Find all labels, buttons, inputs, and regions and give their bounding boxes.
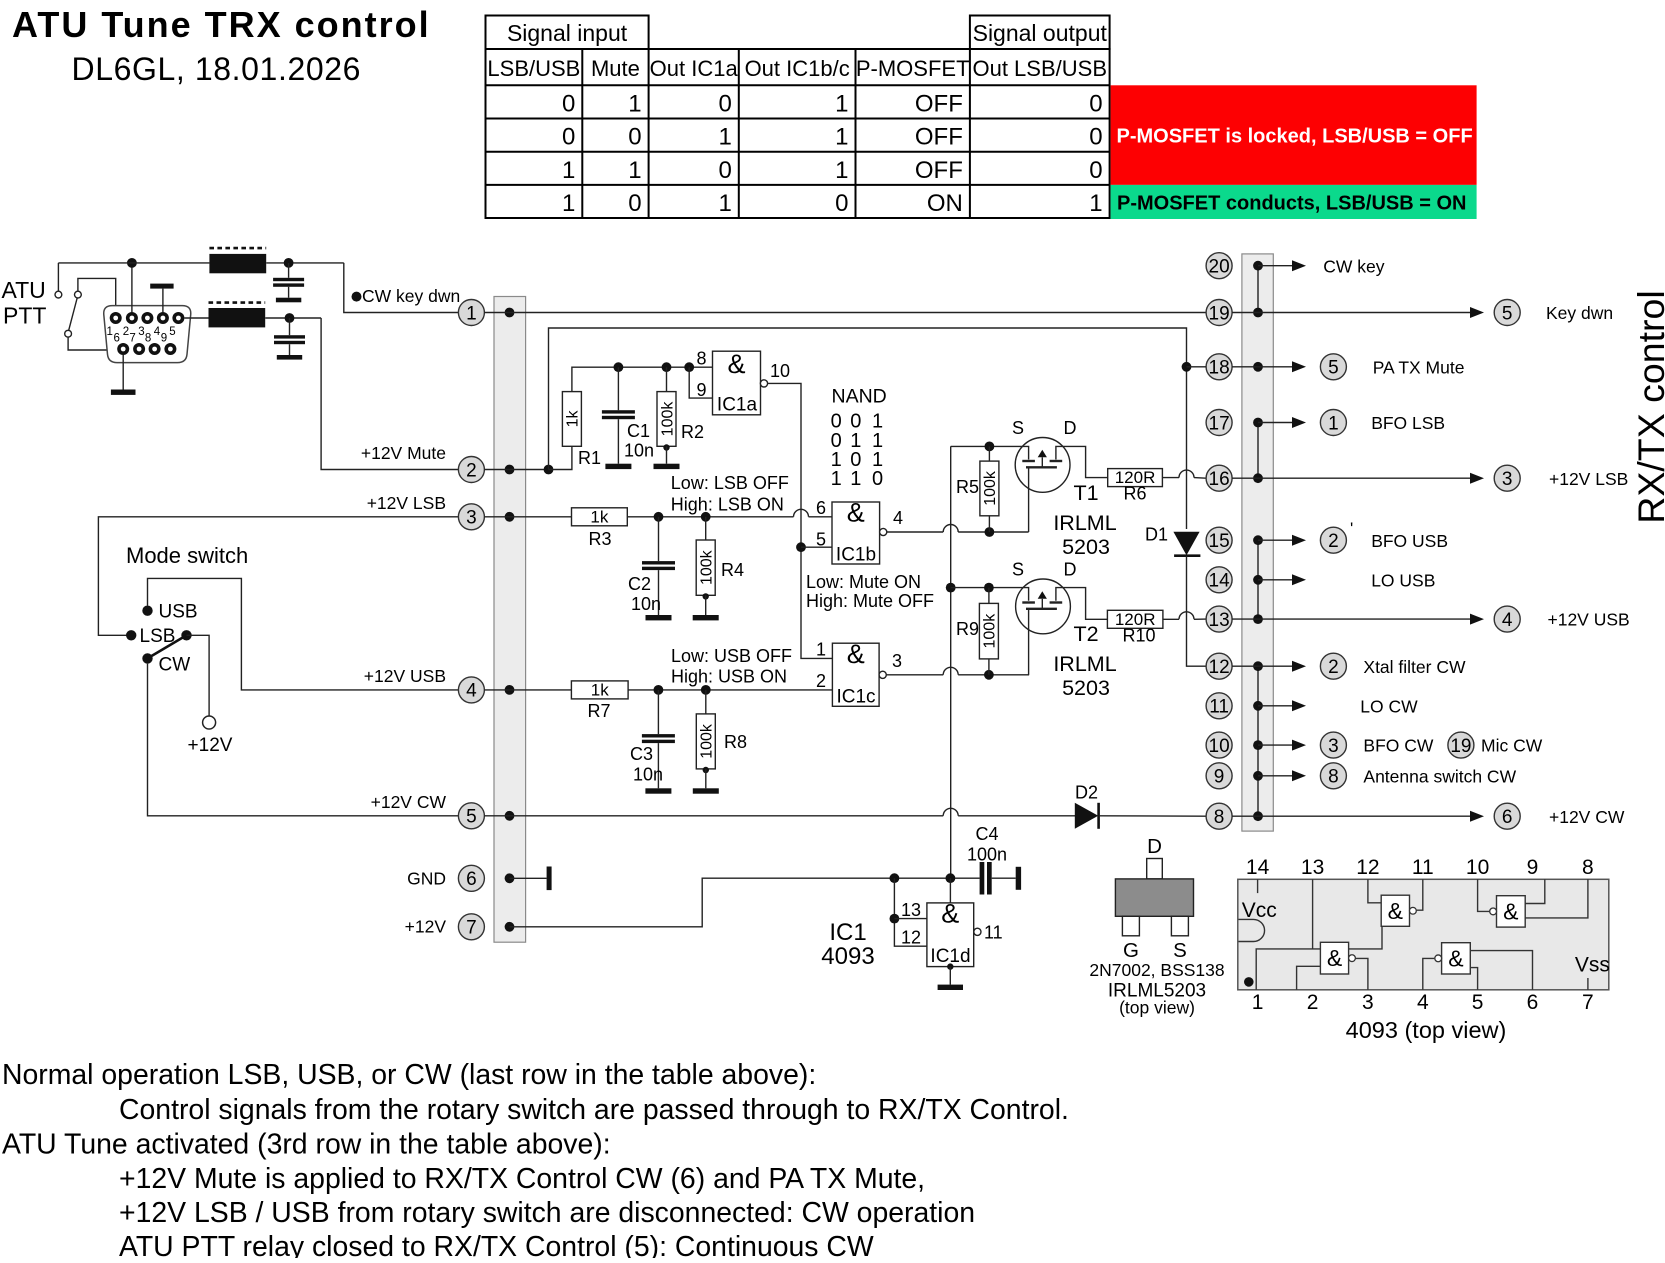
target circle 1 BFO LSB	[1320, 410, 1346, 436]
svg-text:10: 10	[770, 361, 790, 381]
capacitor C5 to ground	[288, 263, 290, 278]
transistor T1 IRLML5203 p-mosfet	[1015, 438, 1070, 493]
svg-text:Key dwn: Key dwn	[1546, 303, 1613, 323]
truth table	[486, 16, 1110, 219]
4093 wire gate4 output to pin11	[1417, 879, 1423, 910]
relay contact B	[75, 291, 82, 298]
junction T2 source / R9 top	[984, 583, 994, 593]
right bus pin 12 dot	[1253, 661, 1263, 671]
svg-text:OFF: OFF	[915, 91, 963, 118]
svg-text:5: 5	[1328, 358, 1339, 379]
svg-text:CW: CW	[159, 655, 191, 676]
wire relay contact A to top rail	[57, 263, 59, 291]
svg-text:17: 17	[1209, 413, 1230, 434]
svg-text:12: 12	[1356, 856, 1379, 879]
hop over IC1a-out vertical	[794, 509, 809, 516]
svg-text:&: &	[1448, 945, 1463, 971]
svg-text:6: 6	[816, 498, 826, 518]
nand gate IC1a	[713, 351, 761, 415]
long arrow out	[1258, 312, 1472, 314]
svg-text:R5: R5	[956, 477, 979, 497]
svg-text:7: 7	[129, 333, 135, 345]
target circle 5 PA TX Mute	[1320, 354, 1346, 380]
left bus pin 1 dot	[505, 308, 515, 318]
ferrite bead L2	[209, 308, 266, 327]
target circle 2 Xtal filter CW	[1320, 653, 1346, 679]
svg-text:S: S	[1012, 560, 1024, 580]
right bus pin 18 circle	[1206, 354, 1232, 380]
capacitor C6 to ground	[289, 318, 291, 335]
left terminal strip bar	[494, 297, 526, 943]
svg-text:100n: 100n	[967, 845, 1007, 865]
svg-text:1: 1	[718, 190, 731, 217]
svg-text:11: 11	[984, 923, 1003, 943]
svg-text:1: 1	[1089, 190, 1102, 217]
4093 gate3 (pins 8,9,10)	[1497, 896, 1526, 927]
svg-text:IC1a: IC1a	[717, 395, 758, 416]
right bus pin 12 circle	[1206, 653, 1232, 679]
svg-text:9: 9	[696, 380, 706, 400]
right terminal strip bar	[1242, 254, 1273, 831]
right bus pin 19 dot	[1253, 308, 1263, 318]
junction R2 top	[662, 362, 672, 372]
DB9 pin 1	[110, 312, 122, 324]
right bus pin 18 dot	[1253, 362, 1263, 372]
arrow out	[1258, 366, 1294, 368]
resistor R8 100k	[705, 690, 707, 714]
4093 pin7 stub	[1587, 978, 1589, 990]
DB9 pin 3	[141, 312, 153, 324]
red note: P-MOSFET is locked	[1111, 85, 1477, 185]
mode switch LSB contact	[126, 630, 136, 640]
R4 lead dot	[703, 593, 709, 599]
svg-text:100k: 100k	[982, 470, 999, 506]
wire IC1c out to T2 gate	[886, 674, 943, 676]
resistor R7 1k	[571, 681, 628, 699]
svg-text:G: G	[1123, 939, 1139, 962]
svg-text:+12V: +12V	[188, 735, 233, 756]
svg-text:5203: 5203	[1062, 676, 1110, 700]
svg-text:LSB/USB: LSB/USB	[487, 56, 580, 81]
resistor R5 100k	[988, 446, 990, 461]
svg-text:5203: 5203	[1062, 535, 1110, 559]
right bus pin 16 dot	[1253, 473, 1263, 483]
wire mute node up and right to pin18 column	[549, 328, 1187, 470]
svg-text:R2: R2	[681, 422, 704, 442]
svg-text:16: 16	[1209, 469, 1230, 490]
junction at C5 top	[284, 258, 294, 268]
wire DB9 pin 2 to top rail	[131, 263, 133, 312]
svg-text:&: &	[1388, 898, 1403, 924]
svg-text:3: 3	[138, 326, 144, 338]
switch blade pole to CW	[148, 635, 187, 658]
junction R8 top	[701, 685, 711, 695]
svg-text:1: 1	[628, 91, 641, 118]
wire bead L2 to corner	[265, 317, 321, 319]
right bus pin 9 dot	[1253, 771, 1263, 781]
svg-text:11: 11	[1209, 697, 1229, 718]
wire R3 to IC1b pin 6	[627, 516, 793, 518]
svg-text:1: 1	[835, 91, 848, 118]
junction T1 source	[985, 442, 995, 452]
IC1a output bubble pin 10	[760, 380, 767, 387]
junction T2 gate / R9 bottom	[984, 670, 994, 680]
ground bar below DB9	[111, 390, 136, 395]
svg-text:100k: 100k	[699, 549, 716, 585]
right bus pin 14 dot	[1253, 575, 1263, 585]
4093 wire pin12 to gate4 input	[1368, 879, 1381, 903]
svg-text:Out IC1b/c: Out IC1b/c	[745, 56, 850, 81]
arrow out	[1258, 775, 1294, 777]
wire source node T1	[951, 446, 1029, 459]
svg-text:&: &	[1503, 898, 1518, 924]
long arrow out	[1258, 815, 1472, 817]
svg-text:Control signals from the rotar: Control signals from the rotary switch a…	[119, 1094, 1069, 1126]
svg-text:0: 0	[1089, 124, 1102, 151]
target circle 5 Key dwn	[1494, 300, 1520, 326]
svg-text:1: 1	[562, 190, 575, 217]
IC1b output bubble pin 4	[880, 528, 887, 535]
wire top rail (CW key) from relay to bead L1	[58, 262, 209, 264]
svg-text:T2: T2	[1073, 622, 1098, 646]
svg-text:BFO LSB: BFO LSB	[1371, 413, 1445, 433]
svg-text:1: 1	[718, 124, 731, 151]
gnd terminator at pin 6	[510, 877, 547, 879]
4093 gate2 (pins 5,6,4)	[1442, 943, 1471, 974]
svg-text:11: 11	[1412, 856, 1434, 879]
mute/D1 vertical column	[1186, 361, 1188, 529]
hop over +12V vertical	[943, 525, 958, 533]
svg-text:Mode switch: Mode switch	[126, 543, 248, 568]
svg-text:100k: 100k	[659, 401, 676, 437]
IC1d output bubble pin 11	[974, 928, 981, 935]
svg-text:C1: C1	[627, 421, 650, 441]
svg-text:12: 12	[901, 928, 921, 948]
arrow out	[1258, 422, 1294, 424]
wire D2 to right bus pin 8	[1099, 815, 1206, 817]
IC1c output bubble pin 3	[879, 671, 886, 678]
wire pin5 row to D2	[484, 815, 943, 817]
left bus pin 2 dot	[505, 465, 515, 475]
relay blade	[69, 298, 78, 331]
right bus pin 13 circle	[1206, 606, 1232, 632]
left bus pin 2 circle	[458, 457, 484, 483]
resistor R9 100k	[988, 588, 990, 604]
svg-text:R8: R8	[724, 732, 747, 752]
right bus pin 20 circle	[1206, 253, 1232, 279]
long arrow out	[1258, 477, 1472, 479]
wire pin7 +12V to C4	[510, 878, 980, 927]
wire IC1a out down to IC1b pin5 and IC1c pin1	[768, 383, 833, 658]
svg-text:3: 3	[1362, 991, 1374, 1014]
svg-text:0: 0	[718, 157, 731, 184]
wire R6 to right bus pin 16	[1162, 477, 1179, 479]
right bus pin 19 circle	[1206, 300, 1232, 326]
svg-text:1: 1	[106, 326, 112, 338]
DB9 pin 9	[164, 343, 176, 355]
wire CW contact to bus pin 5	[148, 664, 459, 816]
svg-text:Xtal filter CW: Xtal filter CW	[1363, 657, 1466, 677]
svg-text:9: 9	[1214, 767, 1225, 788]
4093 pin1 marker dot	[1244, 977, 1254, 987]
svg-text:1: 1	[816, 640, 826, 660]
target circle 4 +12V USB	[1494, 606, 1520, 632]
right bus pin 14 circle	[1206, 567, 1232, 593]
mode switch USB contact	[142, 606, 152, 616]
svg-text:R4: R4	[721, 560, 744, 580]
4093 pin14 stub	[1257, 879, 1259, 893]
svg-text:0: 0	[562, 91, 575, 118]
svg-text:IRLML: IRLML	[1053, 511, 1116, 535]
svg-text:4: 4	[466, 681, 477, 702]
4093 wire pin1 to gate1 input	[1256, 926, 1382, 990]
svg-text:3: 3	[1328, 736, 1339, 757]
svg-text:BFO USB: BFO USB	[1371, 531, 1448, 551]
wire R1 top to rail	[572, 367, 713, 391]
wire pin4 row bus to R7	[484, 689, 571, 691]
svg-text:1k: 1k	[590, 507, 608, 526]
svg-text:Normal operation LSB, USB, or: Normal operation LSB, USB, or CW (last r…	[2, 1059, 816, 1091]
right bus pin 20 dot	[1253, 261, 1263, 271]
svg-text:D: D	[1064, 560, 1077, 580]
svg-text:Low: USB OFF: Low: USB OFF	[671, 646, 792, 666]
DB9 pin 5	[172, 312, 184, 324]
right bus internal links	[1257, 266, 1259, 313]
wire pivot to DB9 pin 6	[68, 337, 119, 350]
svg-text:D1: D1	[1145, 525, 1168, 545]
svg-text:2: 2	[1328, 657, 1339, 678]
svg-text:19: 19	[1450, 736, 1471, 757]
arrow out	[1258, 579, 1294, 581]
svg-text:1: 1	[1252, 991, 1264, 1014]
svg-text:1: 1	[835, 124, 848, 151]
svg-text:CW key: CW key	[1323, 256, 1385, 276]
svg-text:13: 13	[1301, 856, 1324, 879]
left bus pin 5 circle	[458, 803, 484, 829]
4093 wire pin6 to gate2 input	[1470, 951, 1532, 990]
svg-text:Out LSB/USB: Out LSB/USB	[972, 56, 1107, 81]
svg-text:D2: D2	[1075, 783, 1098, 803]
svg-text:RX/TX control: RX/TX control	[1630, 290, 1665, 523]
nand gate IC1d	[927, 903, 974, 967]
mode switch CW contact	[142, 653, 152, 663]
svg-text:1: 1	[1328, 413, 1339, 434]
svg-text:ATU Tune activated (3rd row in: ATU Tune activated (3rd row in the table…	[2, 1129, 611, 1161]
left bus pin 3 circle	[458, 504, 484, 530]
svg-text:10n: 10n	[624, 441, 654, 461]
right bus pin 9 circle	[1206, 763, 1232, 789]
target circle 19 Mic CW	[1448, 732, 1474, 758]
resistor R10 120R	[1107, 610, 1163, 628]
ferrite bead L1	[209, 254, 266, 273]
svg-text:3: 3	[892, 651, 902, 671]
T2 gate lead	[1028, 609, 1030, 675]
svg-text:10n: 10n	[631, 594, 661, 614]
DB9 pin 7	[133, 343, 145, 355]
svg-text:+12V LSB / USB from rotary swi: +12V LSB / USB from rotary switch are di…	[119, 1197, 975, 1229]
svg-text:R1: R1	[578, 448, 601, 468]
svg-text:ATU: ATU	[2, 277, 46, 303]
svg-text:ATU Tune TRX control: ATU Tune TRX control	[12, 4, 431, 45]
svg-text:6: 6	[113, 333, 119, 345]
ground below R2	[654, 464, 680, 469]
svg-text:2: 2	[1307, 991, 1319, 1014]
left bus pin 7 dot	[505, 922, 515, 932]
svg-text:P-MOSFET: P-MOSFET	[856, 56, 970, 81]
svg-text:13: 13	[901, 900, 921, 920]
right bus pin 15 circle	[1206, 527, 1232, 553]
svg-text:2: 2	[466, 460, 477, 481]
svg-text:OFF: OFF	[915, 157, 963, 184]
junction C2 top	[654, 512, 664, 522]
4093 wire pin2 to gate1 input	[1297, 966, 1321, 990]
relay contact A	[55, 291, 62, 298]
capacitor C2 10n	[658, 517, 660, 561]
wire Vcc into IC1d top	[949, 878, 951, 903]
svg-text:0: 0	[1089, 157, 1102, 184]
transistor T2 IRLML5203 p-mosfet	[1016, 579, 1071, 634]
svg-text:PTT: PTT	[3, 303, 46, 329]
svg-text:&: &	[1327, 945, 1342, 971]
wire pin1 row to right bus pin 19	[484, 312, 1206, 314]
svg-text:IRLML: IRLML	[1053, 652, 1116, 676]
hop over +12V vertical	[943, 667, 958, 675]
svg-text:S: S	[1012, 418, 1024, 438]
wire contact B to DB9 pin 1	[78, 278, 116, 311]
svg-text:&: &	[941, 899, 959, 929]
svg-text:1k: 1k	[565, 410, 582, 428]
svg-text:7: 7	[1582, 991, 1594, 1014]
svg-text:10: 10	[1209, 736, 1230, 757]
capacitor C3 10n	[657, 690, 659, 734]
svg-text:0: 0	[628, 124, 641, 151]
svg-text:4093 (top view): 4093 (top view)	[1346, 1017, 1507, 1043]
svg-text:IC1: IC1	[829, 919, 866, 946]
left bus pin 1 circle	[458, 300, 484, 326]
svg-text:3: 3	[466, 508, 477, 529]
ground below R8	[693, 788, 719, 793]
svg-text:Mic CW: Mic CW	[1481, 736, 1543, 756]
resistor R3 1k	[572, 508, 628, 526]
wire corner down to bus pin 1	[344, 263, 459, 313]
right bus pin 16 circle	[1206, 465, 1232, 491]
nand gate IC1c	[832, 643, 879, 706]
svg-text:DL6GL, 18.01.2026: DL6GL, 18.01.2026	[72, 51, 362, 87]
svg-text:12: 12	[1209, 657, 1230, 678]
right bus pin 10 dot	[1253, 740, 1263, 750]
svg-text:15: 15	[1209, 531, 1230, 552]
svg-text:+12V: +12V	[405, 917, 447, 937]
svg-text:&: &	[727, 349, 745, 379]
svg-text:GND: GND	[407, 869, 446, 889]
arrow out	[1258, 665, 1294, 667]
svg-text:C3: C3	[630, 744, 653, 764]
svg-text:4: 4	[1502, 610, 1513, 631]
svg-text:6: 6	[466, 869, 477, 890]
+12V input terminal	[203, 716, 216, 729]
junction IC1a pin9 branch	[684, 362, 694, 372]
svg-text:100k: 100k	[699, 723, 716, 759]
SOT-23 package top view	[1147, 859, 1163, 879]
svg-text:1: 1	[562, 157, 575, 184]
wire USB contact up and over to +12V USB line	[148, 578, 459, 690]
svg-text:14: 14	[1209, 571, 1231, 592]
svg-text:R3: R3	[588, 529, 611, 549]
svg-text:8: 8	[696, 349, 706, 369]
svg-text:Signal output: Signal output	[973, 20, 1108, 46]
svg-text:6: 6	[1527, 991, 1539, 1014]
svg-text:R10: R10	[1122, 626, 1155, 646]
target circle 3 +12V LSB	[1494, 465, 1520, 491]
long arrow out	[1258, 618, 1472, 620]
svg-text:': '	[1350, 519, 1353, 538]
right bus pin 17 circle	[1206, 410, 1232, 436]
svg-text:R9: R9	[956, 619, 979, 639]
wire pin18 junction to circle	[1187, 366, 1207, 368]
svg-text:10n: 10n	[633, 765, 663, 785]
svg-text:T1: T1	[1073, 481, 1098, 505]
svg-text:P-MOSFET conducts, LSB/USB = O: P-MOSFET conducts, LSB/USB = ON	[1117, 193, 1466, 215]
wire branch down to IC1d pins 13/12	[894, 878, 927, 946]
svg-text:4: 4	[1417, 991, 1429, 1014]
svg-text:7: 7	[466, 918, 477, 939]
svg-text:High: Mute OFF: High: Mute OFF	[806, 591, 934, 611]
arrow out	[1258, 705, 1294, 707]
svg-text:P-MOSFET is locked, LSB/USB =: P-MOSFET is locked, LSB/USB = OFF	[1117, 126, 1473, 148]
svg-text:S: S	[1173, 939, 1187, 962]
wire pin3 row bus to R3	[484, 516, 571, 518]
resistor R1 1k	[562, 392, 581, 447]
wire to IC1a pin 9	[689, 367, 712, 398]
right bus pin 11 circle	[1206, 693, 1232, 719]
junction pin13 branch	[890, 914, 900, 924]
svg-text:5: 5	[1502, 303, 1513, 324]
svg-text:R7: R7	[587, 701, 610, 721]
svg-text:0: 0	[872, 468, 883, 490]
svg-text:IC1b: IC1b	[836, 545, 876, 566]
arrow out	[1258, 539, 1294, 541]
svg-text:2N7002, BSS138: 2N7002, BSS138	[1089, 960, 1224, 980]
wire source node T2	[951, 588, 1029, 601]
svg-text:19: 19	[1209, 303, 1230, 324]
svg-text:0: 0	[718, 91, 731, 118]
diode D2	[1075, 803, 1098, 829]
svg-text:0: 0	[835, 190, 848, 217]
4093 DIP-14 package top view	[1238, 879, 1609, 990]
capacitor C4 100n	[980, 862, 985, 895]
svg-text:1k: 1k	[591, 681, 609, 700]
resistor R4 100k	[705, 517, 707, 540]
left bus pin 7 circle	[458, 914, 484, 940]
svg-text:NAND: NAND	[832, 385, 887, 407]
svg-text:+12V Mute is applied to RX/TX: +12V Mute is applied to RX/TX Control CW…	[119, 1163, 925, 1195]
wire bus pin3 to LSB contact	[98, 517, 458, 636]
4093 wire pin8 to gate3 input	[1525, 879, 1588, 918]
wire R7 to IC1c pin 2	[628, 689, 832, 691]
svg-text:CW key dwn: CW key dwn	[362, 286, 460, 306]
wire R10 to right bus pin 13	[1163, 618, 1179, 620]
svg-text:0: 0	[1089, 91, 1102, 118]
svg-text:(top view): (top view)	[1119, 998, 1195, 1018]
junction T2 source row	[946, 583, 956, 593]
svg-text:D: D	[1064, 418, 1077, 438]
svg-text:LO USB: LO USB	[1371, 570, 1435, 590]
4093 wire pin9 to gate3 input	[1525, 879, 1545, 903]
4093 gate1 (pins 1,2,3)	[1320, 942, 1348, 974]
left bus pin 6 dot	[505, 873, 515, 883]
junction pin18 row	[1182, 362, 1192, 372]
4093 wire pin13	[1312, 879, 1314, 949]
